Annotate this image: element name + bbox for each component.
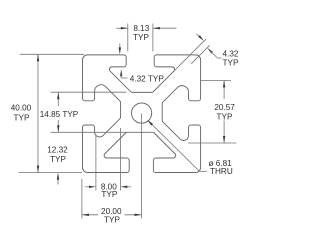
svg-text:TYP: TYP [223, 58, 239, 67]
dimension 8.00 TYP extension lines [95, 135, 97, 191]
dimension 4.32 TYP (web) arrows [197, 34, 201, 38]
leader for hole diameter 6.81 [148, 121, 200, 172]
svg-text:14.85 TYP: 14.85 TYP [40, 110, 79, 119]
dimension 4.32 TYP (web) extension line A [153, 39, 206, 92]
svg-text:4.32 TYP: 4.32 TYP [130, 75, 165, 84]
svg-text:40.00: 40.00 [11, 103, 32, 112]
extrusion profile outline [83, 55, 201, 173]
dimension 12.32 TYP dim line and arrows [57, 175, 59, 185]
dimension 14.85 TYP dim line and arrows [57, 92, 59, 106]
dimension 8.00 TYP dim line and arrows [85, 186, 89, 188]
center hole [132, 103, 152, 123]
svg-text:8.13: 8.13 [133, 24, 149, 33]
svg-text:20.57: 20.57 [214, 103, 235, 112]
dimension 4.32 TYP (lip depth) outside arrow [119, 44, 121, 49]
svg-text:4.32: 4.32 [223, 50, 239, 59]
dimension 20.57 TYP dim line and arrows [223, 80, 225, 99]
dimension 4.32 TYP (web) extension line B [191, 45, 210, 64]
svg-text:TYP: TYP [101, 190, 117, 199]
dimension 14.85 TYP extension lines [51, 91, 127, 93]
dimension 8.13 TYP dim line and arrows [116, 27, 128, 29]
svg-text:TYP: TYP [104, 216, 120, 225]
dimension 20.00 TYP extension lines [81, 179, 83, 219]
svg-text:TYP: TYP [50, 155, 66, 164]
dimension 20.00 TYP dim line and arrows [82, 214, 98, 216]
dimension 40.00 TYP extension lines [20, 53, 84, 55]
dimension 40.00 TYP dim line and arrows [37, 54, 39, 172]
svg-text:THRU: THRU [210, 167, 233, 176]
svg-text:TYP: TYP [217, 112, 233, 121]
svg-text:12.32: 12.32 [47, 146, 68, 155]
svg-text:TYP: TYP [133, 33, 149, 42]
dimension 8.13 TYP extension lines [127, 24, 129, 52]
svg-text:TYP: TYP [14, 113, 30, 122]
dimension 4.32 TYP (lip depth) inside arrow and leader [120, 69, 122, 76]
dimension 20.57 TYP extension lines [201, 79, 231, 81]
